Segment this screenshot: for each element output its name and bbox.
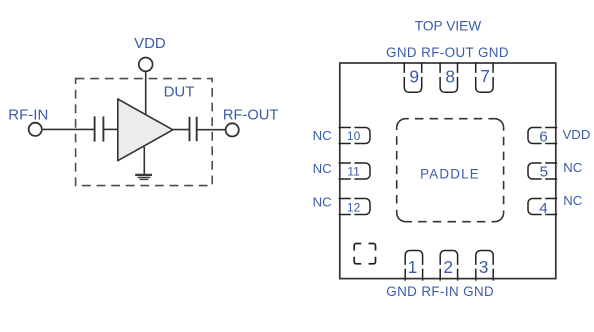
svg-text:5: 5 [540, 163, 548, 180]
pin 2 [440, 251, 457, 281]
wire VDD to amplifier [145, 72, 147, 115]
svg-text:11: 11 [347, 165, 360, 179]
svg-text:NC: NC [313, 128, 333, 143]
pin 6 [528, 128, 557, 144]
terminal RF-OUT [226, 123, 239, 136]
wire RF-IN to C1 [43, 128, 94, 130]
svg-text:DUT: DUT [164, 84, 195, 101]
pin 3 [476, 251, 493, 281]
svg-text:3: 3 [479, 257, 489, 277]
pin 12 [339, 199, 370, 215]
svg-text:NC: NC [563, 193, 583, 208]
svg-text:PADDLE: PADDLE [420, 167, 480, 182]
svg-text:8: 8 [445, 67, 455, 87]
wire amplifier to C2 [173, 129, 189, 131]
svg-text:VDD: VDD [134, 35, 166, 52]
svg-text:NC: NC [313, 161, 333, 176]
capacitor C2 [190, 117, 197, 141]
svg-text:GND RF-IN GND: GND RF-IN GND [386, 284, 494, 299]
svg-text:7: 7 [480, 66, 490, 86]
wire C2 to RF-OUT [197, 129, 226, 131]
pin 11 [339, 163, 370, 179]
wire amplifier to ground [143, 147, 145, 175]
pin 10 [339, 128, 370, 144]
pin 4 [528, 199, 557, 215]
pin 9 [404, 62, 421, 92]
svg-text:6: 6 [539, 128, 547, 145]
terminal VDD [139, 58, 153, 72]
pin 1 [405, 251, 422, 281]
svg-text:RF-OUT: RF-OUT [223, 108, 279, 124]
svg-text:9: 9 [409, 67, 419, 87]
pin 7 [476, 62, 493, 92]
terminal RF-IN [29, 123, 42, 136]
paddle dashed outline [397, 119, 504, 222]
svg-text:NC: NC [563, 160, 583, 175]
svg-text:GND RF-OUT GND: GND RF-OUT GND [386, 45, 509, 60]
DUT dashed box [76, 79, 213, 186]
svg-text:TOP VIEW: TOP VIEW [415, 18, 482, 33]
wire C1 to amplifier [103, 128, 118, 130]
svg-text:NC: NC [313, 194, 333, 209]
svg-text:10: 10 [347, 129, 361, 143]
svg-text:1: 1 [408, 257, 418, 277]
pin 8 [440, 62, 457, 92]
svg-text:4: 4 [539, 200, 547, 217]
svg-text:12: 12 [347, 200, 361, 214]
ground [135, 175, 152, 180]
pin 1 indicator dashed square [354, 244, 375, 264]
capacitor C1 [95, 116, 104, 141]
svg-text:RF-IN: RF-IN [8, 107, 48, 124]
op-amp U1 (DUT amplifier) [118, 99, 173, 161]
svg-text:VDD: VDD [563, 127, 591, 142]
pin 5 [528, 163, 557, 179]
package outline [340, 63, 556, 279]
svg-text:2: 2 [443, 257, 453, 277]
